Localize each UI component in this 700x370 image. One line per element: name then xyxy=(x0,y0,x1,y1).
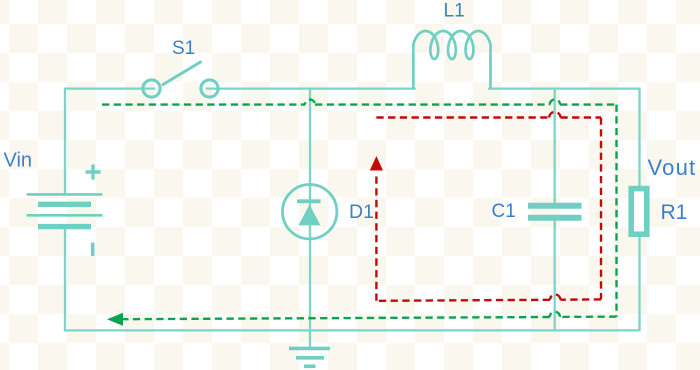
battery plate long thin 1 xyxy=(27,193,103,196)
wire: capacitor branch vertical upper xyxy=(554,89,556,203)
svg-text:S1: S1 xyxy=(172,38,195,59)
wire: green loop top side, right run xyxy=(560,103,616,105)
svg-text:R1: R1 xyxy=(661,201,688,224)
wire: green loop top side, middle run xyxy=(315,103,550,105)
ground bar 3 (smallest) xyxy=(304,364,316,368)
red current loop (dashed, inner) xyxy=(376,112,601,301)
wire: green bottom hop over capacitor wire xyxy=(550,312,560,317)
battery plate short thick 1 xyxy=(38,202,91,207)
wire: green loop bottom right run xyxy=(560,315,616,318)
red arrow head (pointing up) xyxy=(370,156,383,171)
green current loop (dashed, outer) xyxy=(102,99,617,319)
wire: green hop over diode wire xyxy=(305,100,315,105)
diode D1 cathode bar xyxy=(297,199,321,203)
switch S1 lever xyxy=(163,62,201,85)
battery minus sign (vertical bar) xyxy=(91,243,95,257)
svg-text:D1: D1 xyxy=(349,201,374,223)
ground xyxy=(289,348,330,366)
wire: top-left corner, left vertical down to battery xyxy=(65,89,154,194)
diode D1 anode triangle (pointing up) xyxy=(299,205,321,226)
ground bar 2 xyxy=(296,356,324,360)
diode D1 circle xyxy=(283,185,337,239)
wire: green loop bottom long run to arrow xyxy=(122,317,550,319)
switch S1 xyxy=(143,62,218,97)
svg-text:L1: L1 xyxy=(444,1,465,22)
battery plus sign xyxy=(86,165,101,180)
wire: red bottom hop over capacitor wire xyxy=(550,295,560,300)
inductor L1 coil xyxy=(413,31,490,89)
resistor R1 body xyxy=(631,189,647,235)
wire: inductor right to top-right corner, down to R1 top xyxy=(489,89,639,186)
switch S1 left contact circle xyxy=(143,80,160,97)
switch S1 right contact circle xyxy=(201,80,218,97)
wire: red loop left side up to arrow xyxy=(375,172,377,301)
wire: capacitor branch vertical lower xyxy=(554,220,556,331)
wire: diode branch vertical x=310 xyxy=(309,89,311,331)
green arrow head (bottom left, pointing left) xyxy=(107,313,123,326)
ground bar 1 (widest) xyxy=(289,347,330,351)
wire: green loop right side xyxy=(615,105,617,317)
wire: red hop over capacitor wire xyxy=(549,112,560,118)
svg-text:C1: C1 xyxy=(492,201,516,222)
wire: red loop bottom right run xyxy=(560,298,601,301)
battery Vin xyxy=(27,165,103,257)
wire: ground stub below bus xyxy=(309,330,311,347)
capacitor C1 top plate xyxy=(528,203,582,209)
battery plate short thick 2 xyxy=(38,224,91,229)
wire: red loop bottom long run xyxy=(376,300,550,301)
capacitor C1 xyxy=(528,206,582,218)
wire: R1 bottom, bottom-right corner, bottom bus xyxy=(65,237,640,330)
svg-text:Vin: Vin xyxy=(4,150,33,172)
wire: battery bottom to bottom bus xyxy=(64,227,66,331)
wire: red loop top side, right run xyxy=(560,116,601,118)
wire: switch right circle to inductor left riser xyxy=(207,87,415,89)
svg-text:Vout: Vout xyxy=(648,155,697,180)
wire: red loop top side, left run xyxy=(376,116,549,118)
diode D1 xyxy=(283,185,337,239)
wire: green hop over capacitor wire xyxy=(550,99,560,104)
wire: green loop top side, left run xyxy=(102,103,305,105)
capacitor C1 bottom plate xyxy=(528,215,582,221)
wire: red loop right side xyxy=(600,118,602,300)
battery plate long thin 2 xyxy=(27,214,103,217)
